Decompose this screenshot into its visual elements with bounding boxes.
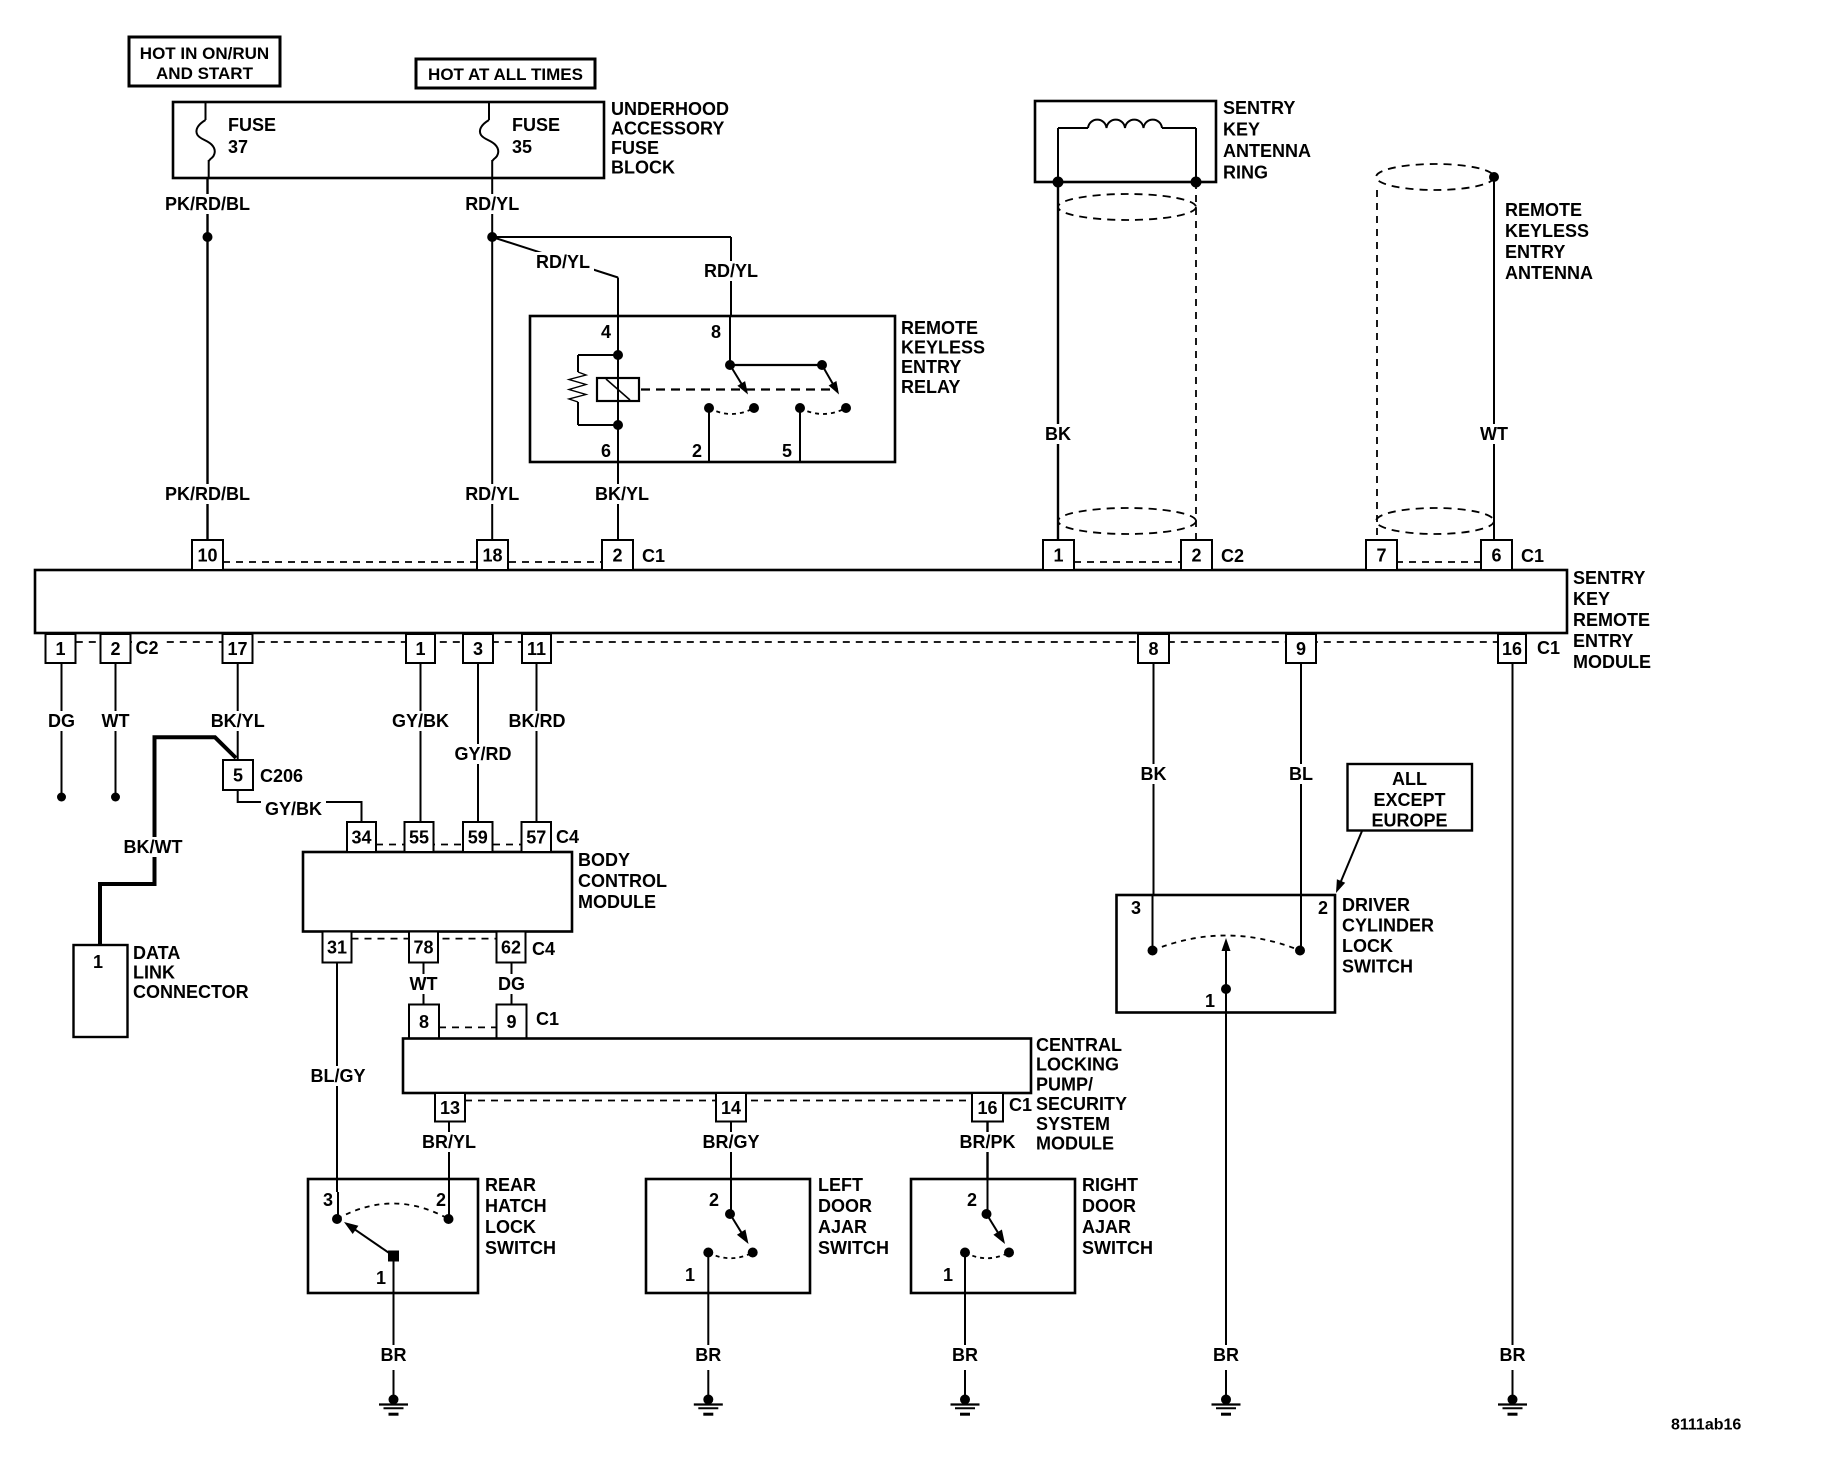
label BR rear hatch	[377, 1345, 411, 1365]
label BR module 16	[1496, 1345, 1530, 1365]
svg-text:BL/GY: BL/GY	[310, 1066, 365, 1086]
svg-text:2: 2	[709, 1190, 719, 1210]
rear hatch common node	[388, 1251, 399, 1262]
svg-text:PK/RD/BL: PK/RD/BL	[165, 194, 250, 214]
wire DG BCM 62 to pump 9	[511, 963, 513, 1005]
svg-text:2: 2	[692, 441, 702, 461]
label BK	[1041, 424, 1075, 444]
svg-text:FUSE: FUSE	[512, 115, 560, 135]
svg-text:RD/YL: RD/YL	[465, 194, 519, 214]
driver lock pin 2 node	[1295, 946, 1305, 956]
label BR driver lock	[1209, 1345, 1243, 1365]
wire WT BCM 78 to pump 8	[423, 963, 425, 1005]
BCM pin 78	[409, 932, 438, 963]
svg-text:C1: C1	[1009, 1095, 1032, 1115]
key cylinder top dashed ellipse	[1058, 194, 1196, 220]
rear hatch pin 3 node	[332, 1214, 342, 1224]
svg-text:6: 6	[601, 441, 611, 461]
module pin 1 bottom C2	[46, 634, 76, 663]
svg-text:BODY: BODY	[578, 850, 630, 870]
relay pin 5 stub wire	[799, 408, 801, 462]
svg-text:C1: C1	[1521, 546, 1544, 566]
svg-text:ENTRY: ENTRY	[1505, 242, 1565, 262]
svg-text:C2: C2	[1221, 546, 1244, 566]
wire BK module pin 8 to driver lock pin 3	[1153, 663, 1155, 895]
dashed line pump top pins	[439, 1026, 497, 1028]
relay contact 1 common node	[725, 360, 735, 370]
svg-text:55: 55	[409, 828, 429, 848]
module pin 2 top C2	[1181, 540, 1212, 570]
driver lock pin 3 wire stub	[1152, 895, 1154, 951]
module pin 3 bottom	[463, 634, 493, 663]
wire BR to ground right door	[964, 1370, 966, 1400]
svg-text:3: 3	[323, 1190, 333, 1210]
svg-text:BR: BR	[1500, 1345, 1526, 1365]
svg-text:CYLINDER: CYLINDER	[1342, 916, 1434, 936]
svg-text:GY/BK: GY/BK	[392, 711, 449, 731]
svg-text:DG: DG	[498, 974, 525, 994]
wire BR/GY pump 14 to left door pin 2	[730, 1122, 732, 1193]
svg-text:EUROPE: EUROPE	[1371, 811, 1447, 831]
svg-text:BL: BL	[1289, 764, 1313, 784]
wire RD/YL branch to relay pin 8	[492, 236, 731, 238]
svg-text:KEY: KEY	[1573, 589, 1610, 609]
dashed line below pump module	[465, 1100, 972, 1102]
wire RD/YL diagonal branch to relay pin 4	[492, 237, 618, 278]
ground left door	[703, 1395, 713, 1405]
driver lock movable arm	[1225, 949, 1227, 989]
module pin 11	[522, 634, 551, 663]
svg-text:1: 1	[376, 1268, 386, 1288]
svg-text:ENTRY: ENTRY	[1573, 631, 1633, 651]
svg-text:BR: BR	[952, 1345, 978, 1365]
svg-text:ANTENNA: ANTENNA	[1505, 263, 1593, 283]
svg-text:RD/YL: RD/YL	[536, 252, 590, 272]
rear hatch lock switch box	[308, 1179, 478, 1293]
svg-text:14: 14	[721, 1098, 741, 1118]
svg-text:C1: C1	[642, 546, 665, 566]
svg-text:LOCK: LOCK	[485, 1217, 536, 1237]
wire DG from pin 1	[61, 663, 63, 797]
svg-text:8: 8	[419, 1012, 429, 1032]
wire WT from pin 2	[115, 663, 117, 797]
svg-text:C1: C1	[536, 1009, 559, 1029]
label BR right door	[948, 1345, 982, 1365]
svg-text:2: 2	[1318, 898, 1328, 918]
fuse 35 symbol	[488, 102, 490, 120]
rear hatch pin 2 wire stub	[448, 1192, 450, 1219]
left door throw node right	[748, 1248, 758, 1258]
key cylinder bottom dashed ellipse	[1058, 508, 1196, 534]
svg-text:62: 62	[501, 938, 521, 958]
svg-text:SWITCH: SWITCH	[485, 1238, 556, 1258]
relay contact 1 common wire	[729, 316, 731, 365]
label GY/BK left	[388, 711, 453, 731]
svg-text:SECURITY: SECURITY	[1036, 1094, 1127, 1114]
wire GY/RD pin 3 to BCM 59	[477, 663, 479, 822]
rke antenna top dashed ellipse	[1376, 164, 1494, 190]
svg-text:9: 9	[1296, 639, 1306, 659]
left door pin 2 node	[725, 1209, 735, 1219]
svg-text:KEYLESS: KEYLESS	[1505, 221, 1589, 241]
svg-text:HOT IN ON/RUN: HOT IN ON/RUN	[140, 44, 269, 63]
wire BR/PK pump 16 to right door pin 2	[986, 1122, 988, 1180]
antenna ring coil	[1057, 128, 1059, 182]
sentry key remote entry module box	[35, 570, 1567, 633]
dashed wire antenna to module pin 7	[1376, 190, 1378, 540]
module pin 2 bottom C2	[101, 634, 131, 663]
svg-text:HATCH: HATCH	[485, 1196, 547, 1216]
svg-text:ENTRY: ENTRY	[901, 357, 961, 377]
pump pin 14	[716, 1093, 746, 1122]
svg-text:BR/GY: BR/GY	[702, 1132, 759, 1152]
label DG	[44, 711, 79, 731]
svg-text:MODULE: MODULE	[1573, 652, 1651, 672]
module pin 18 top	[477, 540, 508, 570]
driver lock common node	[1221, 984, 1231, 994]
arrow from note to driver lock switch	[1340, 831, 1362, 883]
svg-text:DOOR: DOOR	[1082, 1196, 1136, 1216]
right door movable arm	[987, 1214, 999, 1234]
right door pin 2 wire stub	[987, 1179, 989, 1214]
left door throw node left	[703, 1248, 713, 1258]
svg-text:SWITCH: SWITCH	[818, 1238, 889, 1258]
svg-text:2: 2	[967, 1190, 977, 1210]
svg-text:SENTRY: SENTRY	[1223, 98, 1295, 118]
body control module box	[303, 852, 572, 932]
svg-text:DATA: DATA	[133, 943, 180, 963]
svg-text:8: 8	[711, 322, 721, 342]
label BL driver	[1285, 764, 1317, 784]
left door pin 1 wire	[707, 1253, 709, 1346]
svg-text:REMOTE: REMOTE	[1505, 200, 1582, 220]
svg-text:BR/YL: BR/YL	[422, 1132, 476, 1152]
relay coil top node	[613, 350, 623, 360]
relay contact bridge wire	[730, 364, 822, 366]
rear hatch pin 2 node	[444, 1214, 454, 1224]
svg-text:8: 8	[1148, 639, 1158, 659]
svg-text:57: 57	[526, 828, 546, 848]
label BL/GY	[307, 1066, 370, 1086]
svg-text:ALL: ALL	[1392, 769, 1427, 789]
relay contact 1 throw node left	[704, 403, 714, 413]
svg-text:4: 4	[601, 322, 611, 342]
svg-text:AJAR: AJAR	[818, 1217, 867, 1237]
right door ajar switch box	[911, 1179, 1075, 1293]
relay pin 2 stub wire	[708, 408, 710, 462]
label GY/RD	[451, 744, 516, 764]
relay coil wire pin4 to pin6	[617, 316, 619, 462]
svg-text:2: 2	[1191, 546, 1201, 566]
thick wire BK/WT C206 to data link connector	[100, 737, 236, 945]
junction node on PK/RD/BL wire	[203, 232, 213, 242]
pump pin 9	[497, 1005, 527, 1039]
left door pin 2 wire stub	[730, 1192, 732, 1214]
driver lock pin 3 node	[1148, 946, 1158, 956]
svg-text:1: 1	[55, 639, 65, 659]
relay actuation dashed line	[641, 388, 838, 390]
connector C206 pin 5 box	[223, 760, 253, 790]
module pin 10 top	[192, 540, 223, 570]
right door dashed throw arc	[965, 1253, 1009, 1259]
dashed wire ring to module pin 2 C2	[1195, 182, 1197, 540]
module pin 6 top	[1481, 540, 1512, 570]
wire BK ring to module pin 1 C2	[1057, 182, 1059, 540]
relay contact 1 throw node right	[749, 403, 759, 413]
svg-text:1: 1	[685, 1265, 695, 1285]
wire BR/YL pump 13 to rear hatch pin 2	[448, 1122, 450, 1193]
svg-text:2: 2	[436, 1190, 446, 1210]
svg-text:SENTRY: SENTRY	[1573, 568, 1645, 588]
svg-text:CONTROL: CONTROL	[578, 871, 667, 891]
driver cylinder lock switch box	[1117, 895, 1336, 1013]
svg-text:KEY: KEY	[1223, 120, 1260, 140]
svg-text:34: 34	[351, 828, 371, 848]
pump pin 13	[435, 1093, 465, 1122]
label PK/RD/BL lower	[161, 484, 254, 504]
module pin 16	[1498, 634, 1526, 663]
label BK driver	[1137, 764, 1171, 784]
module pin 7 top	[1366, 540, 1397, 570]
wire BK/RD pin 11 to BCM 57	[536, 663, 538, 822]
ground right door	[960, 1395, 970, 1405]
relay coil bottom node	[613, 420, 623, 430]
label BR/GY	[699, 1132, 764, 1152]
right door pin 2 node	[982, 1209, 992, 1219]
svg-text:11: 11	[527, 639, 546, 659]
label WT lower	[406, 974, 442, 994]
wire BR module pin 16 to ground	[1512, 663, 1514, 1345]
svg-text:DRIVER: DRIVER	[1342, 895, 1410, 915]
wire WT end node	[111, 793, 120, 802]
module pin 1 bottom C1	[406, 634, 435, 663]
svg-text:1: 1	[1053, 546, 1063, 566]
driver lock pin 1 wire	[1225, 989, 1227, 1345]
svg-text:RELAY: RELAY	[901, 377, 960, 397]
label GY/BK lower	[261, 799, 326, 819]
label BK/YL	[591, 484, 653, 504]
svg-text:GY/RD: GY/RD	[454, 744, 511, 764]
rear hatch pin 1 wire	[393, 1256, 395, 1345]
BCM pin 62	[497, 932, 526, 963]
svg-text:1: 1	[93, 952, 103, 972]
relay contact 1 dashed throw arc	[709, 408, 754, 414]
relay contact 2 throw node right	[841, 403, 851, 413]
rear hatch movable arm	[354, 1229, 394, 1256]
svg-text:C1: C1	[1537, 638, 1560, 658]
svg-text:1: 1	[415, 639, 425, 659]
wire BL/GY BCM 31 to rear hatch switch	[336, 963, 338, 1193]
left door movable arm	[730, 1214, 742, 1234]
svg-text:RIGHT: RIGHT	[1082, 1175, 1138, 1195]
svg-text:BR: BR	[695, 1345, 721, 1365]
wire WT antenna to module pin 6 C1	[1493, 177, 1495, 540]
rear hatch dashed throw arc	[337, 1204, 449, 1220]
dashed line BCM bottom pins	[352, 938, 497, 940]
right door throw node right	[1004, 1248, 1014, 1258]
pump pin 16	[972, 1093, 1003, 1122]
sentry key antenna ring box	[1035, 101, 1216, 182]
wire DG end node	[57, 793, 66, 802]
svg-text:SWITCH: SWITCH	[1342, 957, 1413, 977]
label C1 bottom right	[1531, 638, 1561, 656]
label BR/PK	[956, 1132, 1020, 1152]
svg-text:BR: BR	[1213, 1345, 1239, 1365]
svg-text:SWITCH: SWITCH	[1082, 1238, 1153, 1258]
svg-text:2: 2	[612, 546, 622, 566]
relay contact 2 movable arm	[822, 365, 834, 385]
svg-text:MODULE: MODULE	[578, 892, 656, 912]
BCM pin 57	[522, 822, 552, 852]
svg-text:LOCK: LOCK	[1342, 936, 1393, 956]
svg-text:59: 59	[468, 828, 488, 848]
svg-text:5: 5	[782, 441, 792, 461]
relay contact 2 dashed throw arc	[800, 408, 846, 414]
svg-text:2: 2	[110, 639, 120, 659]
relay coil resistor	[578, 354, 618, 356]
wire PK/RD/BL fuse 37 to module pin 10	[206, 178, 208, 540]
wire BR to ground module 16	[1512, 1370, 1514, 1400]
note box ALL EXCEPT EUROPE	[1348, 764, 1473, 831]
svg-text:C4: C4	[532, 939, 555, 959]
svg-text:LINK: LINK	[133, 963, 175, 983]
power source label HOT IN ON/RUN AND START	[129, 37, 280, 86]
wire BK/YL pin 17 to C206	[237, 663, 239, 760]
svg-text:AJAR: AJAR	[1082, 1217, 1131, 1237]
remote keyless entry relay box	[530, 316, 895, 462]
svg-text:GY/BK: GY/BK	[265, 799, 322, 819]
wire BR to ground driver lock	[1225, 1370, 1227, 1400]
rke antenna bottom dashed ellipse	[1376, 508, 1494, 534]
underhood accessory fuse block box	[173, 102, 604, 178]
svg-text:REAR: REAR	[485, 1175, 536, 1195]
fuse 37 symbol	[205, 102, 207, 120]
BCM pin 59	[463, 822, 493, 852]
svg-text:WT: WT	[410, 974, 438, 994]
svg-text:ACCESSORY: ACCESSORY	[611, 119, 724, 139]
svg-text:REMOTE: REMOTE	[901, 318, 978, 338]
svg-text:PUMP/: PUMP/	[1036, 1074, 1093, 1094]
module pin 17	[223, 634, 253, 663]
svg-text:SYSTEM: SYSTEM	[1036, 1114, 1110, 1134]
svg-text:ANTENNA: ANTENNA	[1223, 141, 1311, 161]
dashed connector line above module C2 group	[1074, 561, 1181, 563]
svg-text:KEYLESS: KEYLESS	[901, 338, 985, 358]
wire BK/YL relay pin 6 to module pin 2	[617, 462, 619, 540]
svg-text:DOOR: DOOR	[818, 1196, 872, 1216]
relay contact 2 common node	[817, 360, 827, 370]
module pin 1 top C2	[1043, 540, 1074, 570]
svg-text:35: 35	[512, 137, 532, 157]
label BK/YL module	[207, 711, 269, 731]
svg-text:RD/YL: RD/YL	[704, 261, 758, 281]
svg-text:6: 6	[1491, 546, 1501, 566]
svg-text:C4: C4	[556, 827, 579, 847]
svg-text:37: 37	[228, 137, 248, 157]
BCM pin 55	[405, 822, 434, 852]
svg-text:78: 78	[413, 938, 433, 958]
svg-text:WT: WT	[1480, 424, 1508, 444]
label BR left door	[691, 1345, 725, 1365]
svg-text:RD/YL: RD/YL	[465, 484, 519, 504]
label RD/YL lower	[461, 484, 523, 504]
svg-text:LOCKING: LOCKING	[1036, 1055, 1119, 1075]
ground module pin 16	[1508, 1395, 1518, 1405]
driver lock pin 2 wire stub	[1300, 895, 1302, 951]
wire GY/BK C206 to BCM 34	[238, 790, 362, 822]
svg-text:3: 3	[1131, 898, 1141, 918]
dashed line BCM top pins	[376, 844, 522, 846]
svg-text:MODULE: MODULE	[1036, 1134, 1114, 1154]
svg-text:18: 18	[482, 546, 502, 566]
svg-text:1: 1	[1205, 991, 1215, 1011]
label WT	[98, 711, 134, 731]
svg-text:BK/YL: BK/YL	[595, 484, 649, 504]
svg-text:BR/PK: BR/PK	[959, 1132, 1015, 1152]
svg-text:16: 16	[977, 1098, 997, 1118]
svg-text:PK/RD/BL: PK/RD/BL	[165, 484, 250, 504]
svg-text:BK/RD: BK/RD	[509, 711, 566, 731]
svg-text:BK/WT: BK/WT	[124, 837, 183, 857]
svg-text:BK: BK	[1045, 424, 1071, 444]
svg-text:AND START: AND START	[156, 64, 254, 83]
wire BL module pin 9 to driver lock pin 2	[1300, 663, 1302, 895]
label BK/WT	[120, 837, 187, 857]
svg-text:FUSE: FUSE	[228, 115, 276, 135]
svg-text:REMOTE: REMOTE	[1573, 610, 1650, 630]
dashed connector line above module C1 right group	[1396, 561, 1481, 563]
ground rear hatch	[389, 1395, 399, 1405]
left door ajar switch box	[646, 1179, 810, 1293]
svg-text:1: 1	[943, 1265, 953, 1285]
label BK/RD	[505, 711, 570, 731]
svg-text:8111ab16: 8111ab16	[1671, 1417, 1741, 1434]
label BR/YL	[418, 1132, 480, 1152]
rke antenna node	[1489, 172, 1499, 182]
label RD/YL at relay pin 8	[700, 261, 762, 281]
svg-text:CENTRAL: CENTRAL	[1036, 1035, 1122, 1055]
dashed connector line below module	[76, 641, 1498, 643]
relay contact 1 movable arm	[730, 365, 742, 385]
label C2 bottom	[132, 638, 164, 656]
svg-text:10: 10	[197, 546, 217, 566]
label RD/YL on diagonal	[532, 252, 594, 272]
relay contact 2 throw node left	[795, 403, 805, 413]
svg-text:16: 16	[1502, 639, 1522, 659]
svg-text:C206: C206	[260, 766, 303, 786]
svg-text:HOT AT ALL TIMES: HOT AT ALL TIMES	[428, 65, 583, 84]
data link connector box	[74, 945, 128, 1037]
wire BR to ground left door	[707, 1370, 709, 1400]
label DG lower	[494, 974, 529, 994]
svg-text:13: 13	[440, 1098, 460, 1118]
module pin 9 bottom	[1286, 634, 1316, 663]
relay coil box	[597, 378, 639, 401]
rear hatch pin 3 wire stub	[337, 1192, 339, 1219]
right door throw node left	[960, 1248, 970, 1258]
central locking pump security system module box	[403, 1039, 1031, 1094]
svg-text:3: 3	[473, 639, 483, 659]
svg-text:EXCEPT: EXCEPT	[1373, 790, 1445, 810]
wire GY/BK pin 1 to BCM 55	[420, 663, 422, 822]
BCM pin 34	[347, 822, 376, 852]
antenna ring node right	[1191, 177, 1202, 188]
left door dashed throw arc	[708, 1253, 752, 1259]
module pin 2 top C1	[602, 540, 633, 570]
svg-text:C2: C2	[136, 638, 159, 658]
label RD/YL upper	[461, 194, 523, 214]
svg-text:9: 9	[506, 1012, 516, 1032]
